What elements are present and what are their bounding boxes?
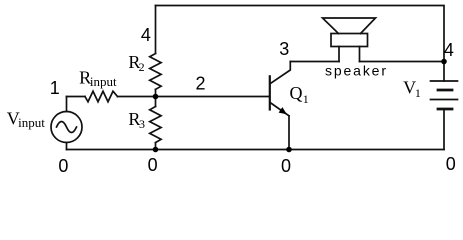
wire emitter lead (288, 116, 290, 150)
svg-text:speaker: speaker (325, 62, 386, 78)
speaker left lead (338, 47, 340, 62)
wire ground rail node 0 (67, 149, 445, 151)
junction node 4 (441, 59, 447, 65)
wire Vinput bottom lead (66, 143, 68, 150)
junction R3 ground (153, 147, 159, 153)
wire speaker to node 4 (360, 61, 445, 63)
transistor Q1 base bar (269, 76, 271, 109)
svg-text:0: 0 (281, 156, 291, 176)
resistor Rinput (85, 91, 118, 102)
svg-text:0: 0 (148, 155, 158, 175)
transistor Q1 emitter arrowhead (279, 107, 287, 114)
resistor R2 (150, 54, 161, 90)
junction node 2 (153, 94, 159, 100)
battery V1 plate short (438, 89, 452, 92)
svg-text:4: 4 (141, 25, 151, 45)
wire collector to speaker (290, 61, 339, 63)
speaker magnet box (331, 34, 368, 47)
wire R3 bottom lead (155, 143, 157, 150)
svg-text:4: 4 (444, 40, 454, 60)
wire R3 top lead (155, 97, 157, 107)
wire Vinput top lead (66, 97, 68, 112)
svg-text:1: 1 (415, 86, 421, 100)
svg-text:0: 0 (446, 154, 456, 174)
battery V1 plate long top (431, 80, 458, 82)
svg-text:2: 2 (196, 74, 206, 94)
svg-text:input: input (18, 115, 45, 130)
wire node 1 segment (67, 96, 86, 98)
battery V1 plate long (431, 99, 458, 101)
speaker right lead (359, 47, 361, 62)
transistor Q1 emitter (271, 103, 289, 116)
svg-text:1: 1 (303, 92, 309, 106)
wire top rail node 4 (156, 6, 445, 62)
wire node 2 segment (118, 96, 270, 98)
svg-text:input: input (90, 74, 117, 89)
transistor Q1 collector (271, 62, 291, 84)
speaker cone (323, 18, 376, 34)
battery V1 top lead (443, 62, 445, 82)
battery V1 bottom lead (443, 109, 445, 150)
svg-text:1: 1 (50, 78, 60, 98)
svg-text:0: 0 (58, 156, 68, 176)
junction emitter ground (286, 147, 292, 153)
wire R2 bottom lead (155, 89, 157, 96)
svg-text:3: 3 (279, 39, 289, 59)
source Vinput circle (51, 112, 82, 143)
resistor R3 (150, 107, 161, 143)
source Vinput sine (57, 122, 77, 133)
wire R2 top lead (155, 6, 157, 54)
svg-text:Q: Q (290, 83, 303, 103)
battery V1 plate short bottom (438, 108, 452, 111)
svg-text:3: 3 (139, 117, 145, 131)
svg-text:2: 2 (139, 60, 145, 74)
